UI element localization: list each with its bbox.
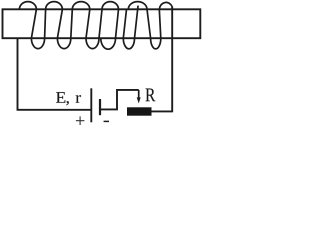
inductor coil turns 5-6 [128, 2, 172, 49]
inductor coil turns 1-4 [19, 2, 118, 50]
battery cell: short plate (-) [99, 99, 101, 115]
wiper arrow shaft [138, 90, 140, 98]
wiper arrowhead [137, 97, 141, 103]
label R (rheostat) [145, 88, 155, 101]
label E (emf) [56, 92, 65, 103]
inductor coil turn 5 lower loop [123, 6, 138, 49]
minus sign [104, 120, 109, 122]
wire: coil left lead down [17, 38, 19, 110]
iron core bar of solenoid [3, 9, 201, 38]
wire: battery negative to riser, up and over to wiper arrow [100, 90, 139, 110]
battery cell: long plate (+) [90, 88, 92, 122]
wire: right vertical up to coil [171, 7, 173, 113]
rheostat body (filled) [127, 107, 152, 115]
label comma [66, 101, 69, 105]
wire: rheostat right end to right vertical [152, 110, 173, 112]
plus sign [76, 116, 85, 125]
wire: bottom left horizontal to battery positive [17, 109, 91, 111]
label r (internal resistance) [76, 95, 81, 103]
